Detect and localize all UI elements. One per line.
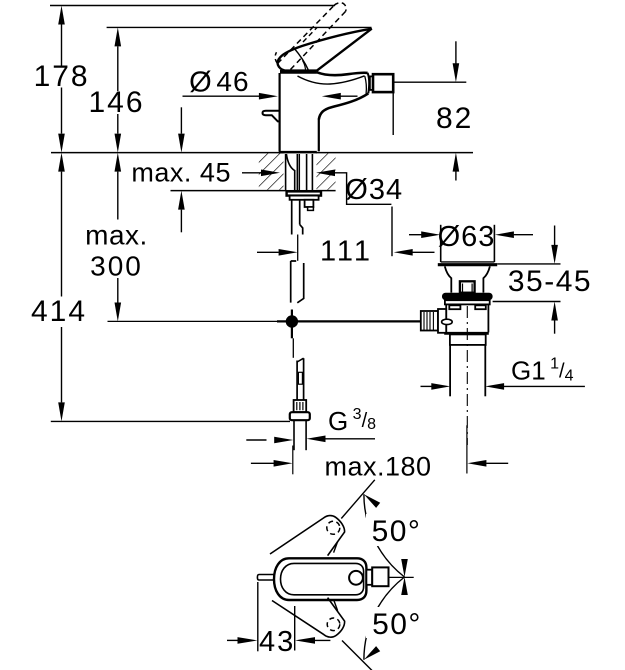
- svg-text:Ø: Ø: [189, 66, 212, 98]
- mounting deck bottom line: [171, 190, 336, 192]
- svg-text:Ø34: Ø34: [345, 174, 403, 206]
- washer under deck: [287, 191, 321, 195]
- label 50 degrees lower: [366, 607, 420, 638]
- supply pipe: [296, 361, 298, 401]
- lever front face crease: [294, 48, 309, 70]
- svg-text:Ø63: Ø63: [438, 221, 496, 253]
- drain dome taper: [445, 266, 452, 292]
- drain body bottom thick: [444, 332, 489, 335]
- faucet lever raised position dashed: [278, 6, 335, 64]
- svg-text:G1 1/4: G1 1/4: [511, 356, 574, 386]
- spout inner top contour: [298, 76, 365, 84]
- dimension 34 arrows at shank: [242, 172, 261, 174]
- cartridge seam thick band: [280, 70, 317, 74]
- rod end lens: [442, 319, 453, 324]
- drain gasket black band: [442, 293, 493, 301]
- pipe below nut: [293, 420, 295, 450]
- spout mouth edge: [368, 73, 370, 94]
- water stream reference line below aerator: [392, 92, 394, 135]
- dimension 111 arrows: [257, 251, 279, 253]
- shank nut: [290, 196, 319, 200]
- pop-up rod knob at back of faucet: [263, 111, 280, 122]
- dimension 414 line: [61, 172, 63, 297]
- lift rod thin middle: [297, 235, 299, 261]
- extension line drain centre for max180: [466, 425, 468, 473]
- plan view aerator block: [372, 567, 388, 586]
- mounting deck top line: [51, 152, 473, 154]
- pop-up pivot ball joint: [286, 315, 298, 327]
- reference line top of lever at rest: [107, 26, 372, 28]
- dimension G3/8 arrows: [246, 439, 266, 441]
- compression fitting: [294, 400, 307, 412]
- faucet base joint band: [279, 151, 317, 154]
- svg-text:146: 146: [88, 86, 144, 119]
- dimension 46 leader and arrows: [183, 95, 260, 97]
- dimension 146 line: [117, 46, 119, 91]
- svg-text:max.: max.: [85, 220, 148, 251]
- svg-text:414: 414: [31, 295, 87, 328]
- plan view faucet body outline: [274, 558, 366, 600]
- plan view inner contour: [281, 563, 364, 594]
- svg-text:300: 300: [90, 251, 143, 282]
- extension line aerator outlet for 82: [393, 81, 466, 83]
- drain body slots: [449, 305, 460, 309]
- lower 50 degree extension line: [342, 641, 376, 670]
- drain lock nut: [450, 334, 486, 345]
- upper 50 degree arc with arrowheads: [364, 494, 405, 577]
- dimension 63 arrows: [409, 234, 422, 236]
- svg-text:35-45: 35-45: [508, 265, 592, 298]
- lift rod tube upper: [291, 200, 293, 235]
- lower ghost dashed circle: [327, 618, 340, 631]
- dimension 178 line: [61, 25, 63, 67]
- plan view spout connector: [366, 570, 372, 585]
- drain washer band: [445, 300, 490, 304]
- dimension max 45 arrows: [180, 107, 182, 133]
- extension line at rod level for max 300: [108, 320, 280, 322]
- svg-text:82: 82: [436, 102, 473, 135]
- pipe hex nut G 3/8: [290, 412, 310, 420]
- drain body: [445, 304, 447, 332]
- drain centreline dash-dot: [466, 306, 468, 445]
- plan view centreline right: [389, 576, 414, 578]
- upper 50 degree extension line: [341, 480, 375, 519]
- dimension max 300 line: [117, 172, 119, 220]
- drain flange rim thick: [438, 263, 497, 266]
- svg-text:max. 45: max. 45: [131, 157, 231, 187]
- svg-text:50°: 50°: [372, 608, 422, 641]
- thin rod below ball: [292, 338, 294, 358]
- dimension max180 arrows: [251, 462, 274, 464]
- lower 50 degree arc with arrowheads: [364, 577, 405, 660]
- svg-text:max.180: max.180: [324, 452, 431, 482]
- drain lift plug square: [460, 281, 475, 292]
- drain rod inlet bracket: [438, 309, 446, 333]
- threaded stud: [305, 200, 314, 207]
- dimension 35-45 arrows: [554, 226, 556, 246]
- svg-text:50°: 50°: [372, 515, 422, 548]
- shank tube lines in deck hole: [285, 154, 287, 191]
- extension of pipe for max180: [292, 446, 294, 475]
- drain tailpipe G1 1/4: [449, 345, 451, 396]
- lever small crease: [303, 61, 306, 70]
- aerator block: [373, 74, 393, 92]
- faucet lever solid outline: [278, 29, 372, 71]
- faucet trunk right edge lower: [318, 119, 320, 151]
- extension line at pipe end for 414: [51, 420, 290, 422]
- plan view back rod: [257, 575, 274, 581]
- spout underside: [319, 93, 369, 119]
- spout mouth inner curve: [365, 76, 367, 93]
- extension lines for 35-45: [497, 263, 560, 265]
- aerator connector: [370, 76, 373, 90]
- lower swung handle ghost: [272, 598, 345, 638]
- svg-text:178: 178: [34, 60, 90, 93]
- svg-text:111: 111: [320, 235, 373, 267]
- svg-text:46: 46: [216, 66, 249, 97]
- drain rod inlet knurled nut: [421, 311, 438, 331]
- drain flange bottom thin line: [441, 261, 495, 263]
- upper swung handle ghost: [270, 516, 345, 556]
- plan view pivot circle: [349, 571, 363, 585]
- leader to label 34: [335, 173, 392, 205]
- dimension 43 arrows: [227, 639, 239, 641]
- horizontal pop-up rod to drain: [277, 320, 421, 322]
- upper ghost dashed circle: [327, 521, 340, 534]
- drain flange side lines: [440, 225, 442, 262]
- extension line from 34 label down to 111 line: [391, 207, 393, 257]
- spout top edge: [317, 72, 368, 75]
- lift rod strap lower: [291, 261, 297, 303]
- svg-text:43: 43: [259, 626, 295, 658]
- deck hole white: [284, 153, 317, 190]
- extension lines for 43: [257, 582, 259, 651]
- dimension G1 1/4 arrows: [421, 385, 432, 387]
- dimension 82 arrows: [455, 41, 457, 64]
- faucet trunk left edge: [279, 73, 281, 151]
- reference line top of raised lever: [50, 5, 335, 7]
- label 50 degrees upper: [366, 514, 420, 546]
